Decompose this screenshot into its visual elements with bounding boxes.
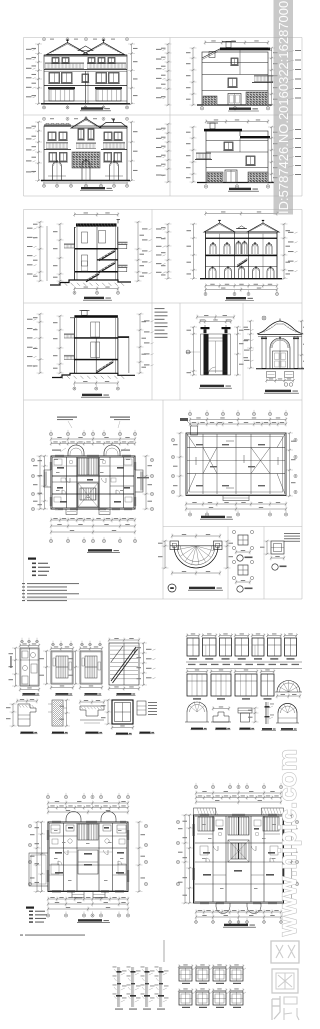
window type W1: [187, 635, 199, 637]
legend block: [22, 558, 79, 602]
door hood elevation side dims: [250, 321, 252, 368]
section 1-1 floor slabs: [75, 248, 118, 250]
drawing C near dimension stack: [192, 48, 194, 105]
drawing B right roof: [100, 123, 127, 128]
drawing A right dimension stack: [131, 44, 133, 104]
drawing D near dimension stack: [192, 127, 194, 182]
first floor plan extra interior details: [54, 829, 58, 832]
wall section details group left: [113, 967, 169, 1010]
drawing D axis bubbles: [204, 185, 207, 188]
sheet cell frame grid: [24, 37, 303, 39]
door hood plan top dim rows: [197, 316, 234, 318]
drawing C flat roof slab: [220, 48, 270, 51]
drawing B plinth steps: [48, 175, 66, 177]
section 2-2 drawing: [156, 211, 298, 301]
section 2-2 eaves line: [206, 231, 278, 233]
third floor plan stair core: [78, 458, 98, 475]
coping profile detail: [79, 700, 105, 734]
nipic watermark CJK glyph ni: [272, 996, 299, 1020]
terrace detail columns: [170, 541, 179, 550]
first floor plan interior walls: [63, 823, 65, 891]
second floor plan bottom bays: [216, 903, 230, 914]
second floor plan left axis bubbles: [176, 820, 179, 823]
drawing B top axis bubbles: [43, 117, 46, 120]
first floor plan drawing: [28, 793, 147, 923]
second floor plan corner stair hatch: [198, 817, 214, 831]
drawing D far dimension stack: [167, 124, 169, 182]
third floor plan bottom porch bumps: [66, 509, 77, 515]
drawing B axis bubbles: [43, 184, 46, 187]
wall section mini detail: [265, 702, 267, 724]
general notes text column: [155, 308, 168, 338]
legend notes text: [22, 583, 25, 584]
leader line from plan above: [163, 940, 165, 962]
window type W2: [203, 635, 217, 637]
first floor plan central hall: [78, 850, 98, 874]
first floor plan left terrace: [29, 853, 48, 886]
section 2-2 upper arch niches: [210, 244, 216, 247]
roof plan bottom axis bubbles: [188, 513, 191, 516]
window type M3: [235, 671, 257, 673]
roof plan top dim rows: [190, 419, 286, 421]
drawing A third floor windows: [52, 58, 59, 64]
drawing D stone base texture: [207, 172, 223, 183]
third floor plan bottom dim rows: [51, 519, 135, 521]
door hood plan left index bubble: [186, 350, 190, 354]
roof plan vertical partitions: [202, 434, 204, 494]
terrace detail title text: [189, 587, 215, 589]
third floor plan interior dim texts: [54, 458, 58, 461]
steps profile detail: [213, 712, 229, 722]
section 1-1 top dim row: [75, 214, 119, 216]
window schedule row 3: [185, 701, 299, 730]
second floor plan bottom axis bubbles: [195, 921, 198, 924]
drawing A left gable roof: [47, 43, 89, 55]
door hood elevation top bubble: [262, 316, 266, 320]
drawing A left dimension stack: [38, 44, 40, 104]
window type M1: [187, 671, 207, 673]
first floor plan stair core: [78, 824, 98, 840]
first floor plan bottom axis bubbles: [46, 914, 49, 917]
drawing A balcony railing: [45, 63, 84, 65]
drawing B building outline: [44, 126, 127, 181]
second floor plan interior walls: [212, 816, 214, 902]
section 3-3 balcony railings left: [64, 334, 74, 336]
door hood elevation arch: [270, 338, 290, 348]
section 2-2 center window arches: [236, 242, 241, 245]
node detail r2c2: [196, 992, 209, 1005]
node detail r1c4: [230, 968, 243, 981]
drawing D balcony left: [196, 153, 211, 155]
section 2-2 bottom dim rows: [206, 285, 278, 287]
parapet section detail: [6, 699, 38, 734]
roof plan valley diagonals: [203, 448, 217, 474]
arch fan window detail: [277, 681, 300, 692]
third floor plan right axis bubbles: [150, 458, 153, 461]
drawing B level cornice: [44, 149, 71, 151]
section 3-3 drawing: [27, 311, 154, 398]
section 2-2 center parapet: [236, 228, 247, 230]
second floor plan top-left balcony hatch: [194, 808, 216, 815]
second floor plan door arcs: [214, 846, 219, 851]
drawing A axis bubbles: [43, 106, 46, 109]
drawing B roof tile hatching: [72, 126, 74, 129]
drawing A title text: [81, 107, 103, 109]
door hood elevation title text: [265, 390, 291, 392]
drawing B arched doorway center: [82, 160, 90, 164]
terrace detail bottom dims: [172, 572, 220, 574]
gray watermark bar top right: [274, 0, 294, 215]
section 1-1 right balconies: [118, 245, 127, 249]
section 3-3 walls: [73, 318, 75, 373]
door hood plan door swing arc: [209, 367, 216, 374]
drawing D title text: [229, 188, 251, 190]
first floor notes text: [20, 935, 23, 936]
section 2-2 axis bubbles: [204, 293, 207, 296]
drawing C stone base texture: [246, 92, 268, 105]
drawing B center gable: [71, 119, 101, 129]
bathroom enlargement detail 2: [40, 641, 75, 696]
section 1-1 stair flight mid: [99, 262, 115, 272]
drawing C axis bubbles: [200, 107, 203, 110]
drawing B arched doorway right: [110, 162, 119, 167]
drawing C top dim row: [205, 42, 268, 44]
second floor plan room labels: [203, 852, 210, 854]
roof plan slope labels: [196, 444, 203, 445]
third floor plan room labels: [57, 467, 64, 469]
first floor plan right axis bubbles: [144, 824, 147, 827]
drawing A top axis bubbles: [43, 38, 46, 41]
door hood elevation index bubbles: [284, 383, 288, 387]
drawing D: side elevation 2: [156, 119, 301, 191]
door hood elevation entablature: [258, 334, 302, 336]
roof plan title text: [201, 516, 225, 518]
first floor plan top axis bubbles: [46, 795, 49, 798]
large arch detail: [278, 704, 297, 713]
section 2-2 stair shape: [237, 259, 247, 266]
drawing B ground line: [41, 180, 130, 182]
roof plan outer walls: [186, 433, 286, 496]
section 2-2 right dimension stack: [283, 224, 285, 279]
svg-text:ID:5787426.NO.20160322:1628700: ID:5787426.NO.20160322:16287000: [276, 1, 291, 214]
drawing A building outline: [44, 55, 127, 103]
section 1-1 foundation hatch: [58, 283, 61, 286]
node detail r2c4: [230, 992, 243, 1005]
drawing A mid cornice: [44, 85, 127, 87]
drawing A plinth line: [44, 100, 127, 102]
roof plan ridge lines: [187, 447, 285, 449]
arch detail with hood: [187, 702, 207, 712]
section 1-1 axis bubbles: [73, 291, 76, 294]
section 2-2 top dim row: [206, 213, 278, 215]
drawing D building outline: [206, 131, 268, 183]
section 2-2 walls: [205, 232, 207, 279]
roof plan drawing: [171, 410, 297, 519]
section 3-3 stair: [97, 361, 114, 372]
section 1-1 right dimension stack: [137, 222, 139, 281]
drawing C ground line: [197, 104, 272, 106]
stair plan enlargement detail: [108, 638, 156, 696]
bathroom enlargement detail 3: [69, 641, 104, 696]
door hood plan title text: [200, 385, 224, 387]
section 2-2 title text: [226, 297, 246, 299]
second floor plan extra interior details: [202, 823, 206, 826]
drawing D right dimension stack: [271, 127, 273, 182]
section 3-3 chimney: [82, 311, 87, 316]
second floor plan top-right balcony hatch: [262, 808, 284, 815]
section 3-3 axis bubbles: [73, 387, 76, 390]
roof plan bottom porch: [223, 496, 249, 501]
section 3-3 right dimension stack: [139, 314, 141, 373]
second floor plan window gaps: [200, 813, 209, 815]
drawing B left parapet: [44, 124, 71, 126]
first floor plan bottom dim rows: [48, 898, 128, 900]
third floor plan left axis bubbles: [31, 458, 34, 461]
third floor plan bottom axis bubbles: [49, 539, 52, 542]
drawing C floor lines: [202, 62, 268, 64]
drawing C parapet chimney: [209, 52, 215, 58]
door hood elevation curved roof: [257, 321, 303, 334]
door hood elevation pedestal details: [267, 372, 276, 378]
roof plan eaves overhang lines: [190, 437, 283, 493]
section 3-3 left dimension stack: [39, 314, 41, 373]
terrace detail arch semicircle: [174, 546, 218, 568]
first floor plan kitchen bath fixtures: [51, 825, 60, 833]
drawing C small window: [228, 78, 237, 87]
window type W5: [252, 635, 264, 637]
drawing D chimney: [210, 123, 215, 129]
drawing A second floor windows: [49, 73, 60, 84]
first floor plan door arcs: [64, 850, 69, 855]
drawing C: side elevation 1: [156, 40, 301, 111]
vertical side label text: [10, 656, 11, 668]
roof plan bottom dim rows: [186, 503, 286, 505]
section 2-2 ground line: [200, 278, 282, 280]
drawing A eaves cornice: [44, 54, 127, 56]
drawing B title text: [81, 187, 105, 189]
third floor plan interior walls: [66, 457, 68, 508]
node detail r2c3: [213, 992, 226, 1005]
window type W4: [235, 635, 249, 637]
section 2-2 lintel line: [206, 266, 278, 268]
drawing B upper windows: [48, 132, 56, 140]
third floor plan central void: [78, 483, 98, 507]
second floor plan top axis bubbles: [194, 785, 197, 788]
window type M2: [211, 671, 231, 673]
third floor plan outer walls: [51, 456, 135, 509]
section 1-1 stair flight upper: [99, 250, 115, 260]
nipic watermark CJK glyph wang: [271, 941, 299, 963]
drawing B balcony railings: [46, 142, 68, 144]
column detail lower: [232, 560, 253, 592]
second floor plan right axis bubbles: [295, 820, 298, 823]
drawing B stone wall texture: [72, 152, 100, 168]
window schedule row 2: [186, 669, 302, 700]
node detail r1c2: [196, 968, 209, 981]
drawing A ground line: [41, 103, 130, 105]
window schedule row 1: [186, 633, 298, 660]
drawing B arched doorway left: [53, 162, 62, 167]
bathroom enlargement detail 1: [9, 638, 41, 696]
drawing C balcony right: [254, 75, 273, 77]
drawing C roof left slope: [202, 49, 220, 58]
section 3-3 interior openings: [91, 322, 100, 337]
section 1-1 left dimension stack: [39, 222, 41, 281]
first floor plan top dim rows: [48, 802, 128, 804]
nipic watermark CJK glyph tu: [272, 969, 298, 993]
section 1-1 title text: [84, 297, 104, 299]
section 2-2 left dimension stack: [167, 224, 169, 279]
section 1-1 walls: [74, 227, 76, 280]
section 3-3 ground line with steps: [52, 373, 135, 377]
terrace plan enlargement detail: [158, 534, 233, 593]
first floor plan title text: [78, 919, 102, 921]
square node details grid right: [178, 964, 246, 1008]
wall section detail column 2: [131, 967, 133, 1007]
drawing D top dim row: [206, 121, 268, 123]
drawing A roof tile hatching: [48, 53, 50, 56]
section 1-1 interior door frames: [82, 232, 88, 243]
drawing D windows: [224, 142, 233, 150]
section 1-1 drawing: [27, 212, 152, 300]
third floor plan title text: [88, 549, 112, 551]
door hood elevation columns: [262, 336, 266, 368]
drawing C building outline: [202, 52, 268, 105]
svg-text:www.nipic.com: www.nipic.com: [274, 748, 302, 937]
drawing C right dimension stack: [271, 48, 273, 105]
third floor plan left balcony: [44, 470, 51, 487]
third floor plan drawing: [31, 417, 153, 553]
section 3-3 floor slabs: [74, 337, 118, 339]
wall section detail column 4: [159, 967, 161, 1007]
drawing A ground floor garage openings: [48, 87, 75, 89]
section 2-2 roof gables: [204, 223, 235, 232]
first floor legend block: [20, 907, 85, 936]
third floor plan top axis bubbles: [49, 432, 52, 435]
door hood elevation door leaf: [273, 351, 288, 369]
drawing A right gable roof: [83, 43, 125, 55]
second floor plan bottom dim rows: [196, 911, 281, 913]
first floor plan window gaps: [52, 820, 61, 822]
door hood plan threshold: [204, 370, 228, 372]
section 3-3 title text: [82, 394, 102, 396]
first floor plan left axis bubbles: [28, 824, 31, 827]
drawing A center pier: [85, 71, 87, 103]
third floor plan top outside leader notes: [60, 448, 66, 452]
section 2-2 floor slabs: [206, 238, 278, 239]
door hood plan column capitals: [201, 327, 210, 329]
terrace detail radial spokes: [196, 546, 214, 551]
node detail r2c1: [179, 992, 192, 1005]
second floor plan title text: [224, 924, 248, 926]
section 1-1 stair flight lower: [86, 273, 99, 281]
drawing C far dimension stack: [167, 44, 169, 105]
wall section detail column 3: [145, 967, 147, 1007]
third floor plan right balcony: [135, 470, 143, 492]
pier detail: [260, 533, 300, 570]
drawing A: front elevation 1: [26, 38, 138, 111]
door hood plan side walls: [204, 334, 209, 375]
drawing C title text: [229, 108, 251, 110]
section 1-1 ground line with steps: [50, 280, 131, 285]
section 2-2 lower arched doors: [209, 268, 216, 272]
section 3-3 right wing slab: [118, 336, 129, 338]
second floor plan outer walls: [194, 815, 284, 903]
drawing D roof slab right: [240, 136, 270, 138]
roof plan right axis bubbles: [294, 438, 297, 441]
window type W3: [220, 635, 232, 637]
pier cap detail: [238, 708, 252, 713]
door hood plan enlargement detail: [186, 315, 244, 389]
drawing A floor cornice: [44, 69, 127, 71]
schedule table text band: [186, 662, 302, 669]
first floor plan entry steps: [72, 892, 84, 898]
door hood plan side dims: [193, 327, 195, 375]
terrace detail big index bubble: [168, 584, 176, 592]
section 3-3 foundation hatch: [60, 376, 63, 379]
section 3-3 roof slab: [74, 315, 118, 318]
drawing D door: [225, 170, 237, 183]
terrace detail top dim row: [172, 535, 220, 537]
second floor plan top dim rows: [196, 792, 281, 794]
drawing B second floor windows: [49, 153, 57, 162]
node detail r1c3: [213, 968, 226, 981]
second floor plan drawing: [176, 783, 298, 927]
roof plan slope arrows: [226, 440, 234, 442]
section 1-1 bottom dim row: [75, 288, 119, 290]
third floor plan extra interior details: [54, 459, 62, 465]
window frame detail: [101, 699, 134, 735]
column detail upper: [232, 530, 253, 561]
third floor plan top dim rows: [51, 438, 135, 440]
section 2-2 near left dimension stack: [193, 224, 195, 279]
drawing D roof slab left: [204, 129, 242, 132]
drawing A center gablet: [78, 46, 93, 51]
section 1-1 roof slab: [76, 223, 117, 226]
first floor plan room labels: [55, 852, 62, 854]
wall section hatched detail: [48, 699, 70, 734]
window type M4: [261, 671, 274, 673]
third floor plan window gaps: [55, 454, 64, 456]
pier detail note text: [284, 533, 300, 534]
third floor plan door arcs: [66, 478, 71, 483]
third floor plan top bay windows: [68, 445, 84, 456]
drawing C door: [228, 94, 241, 106]
node detail r1c1: [179, 968, 192, 981]
wall section detail column 1: [117, 967, 119, 1007]
window type W7: [285, 635, 297, 637]
window type W6: [268, 635, 282, 637]
misc note detail: [137, 701, 157, 734]
door hood elevation enlargement detail: [244, 316, 308, 393]
drawing B right dimension stack: [131, 122, 133, 181]
roof plan chimney with flag: [191, 426, 198, 435]
section 3-3 bottom dim row: [74, 382, 118, 384]
roof plan top axis bubbles: [188, 412, 191, 415]
door hood plan inner lines: [209, 337, 223, 339]
first floor plan top bay windows: [66, 812, 81, 822]
roof plan left axis bubbles: [171, 438, 174, 441]
section 1-1 balcony railings left: [64, 244, 75, 246]
drawing D ground line: [197, 182, 274, 184]
second floor plan central stair core: [228, 817, 249, 835]
drawing B left dimension stack: [38, 122, 40, 181]
door hood elevation ground line: [256, 368, 304, 370]
first floor plan outer walls: [48, 822, 128, 892]
first floor plan entry labels: [74, 897, 82, 898]
drawing D floor lines: [206, 140, 268, 142]
drawing B: elevation 2: [26, 117, 138, 191]
